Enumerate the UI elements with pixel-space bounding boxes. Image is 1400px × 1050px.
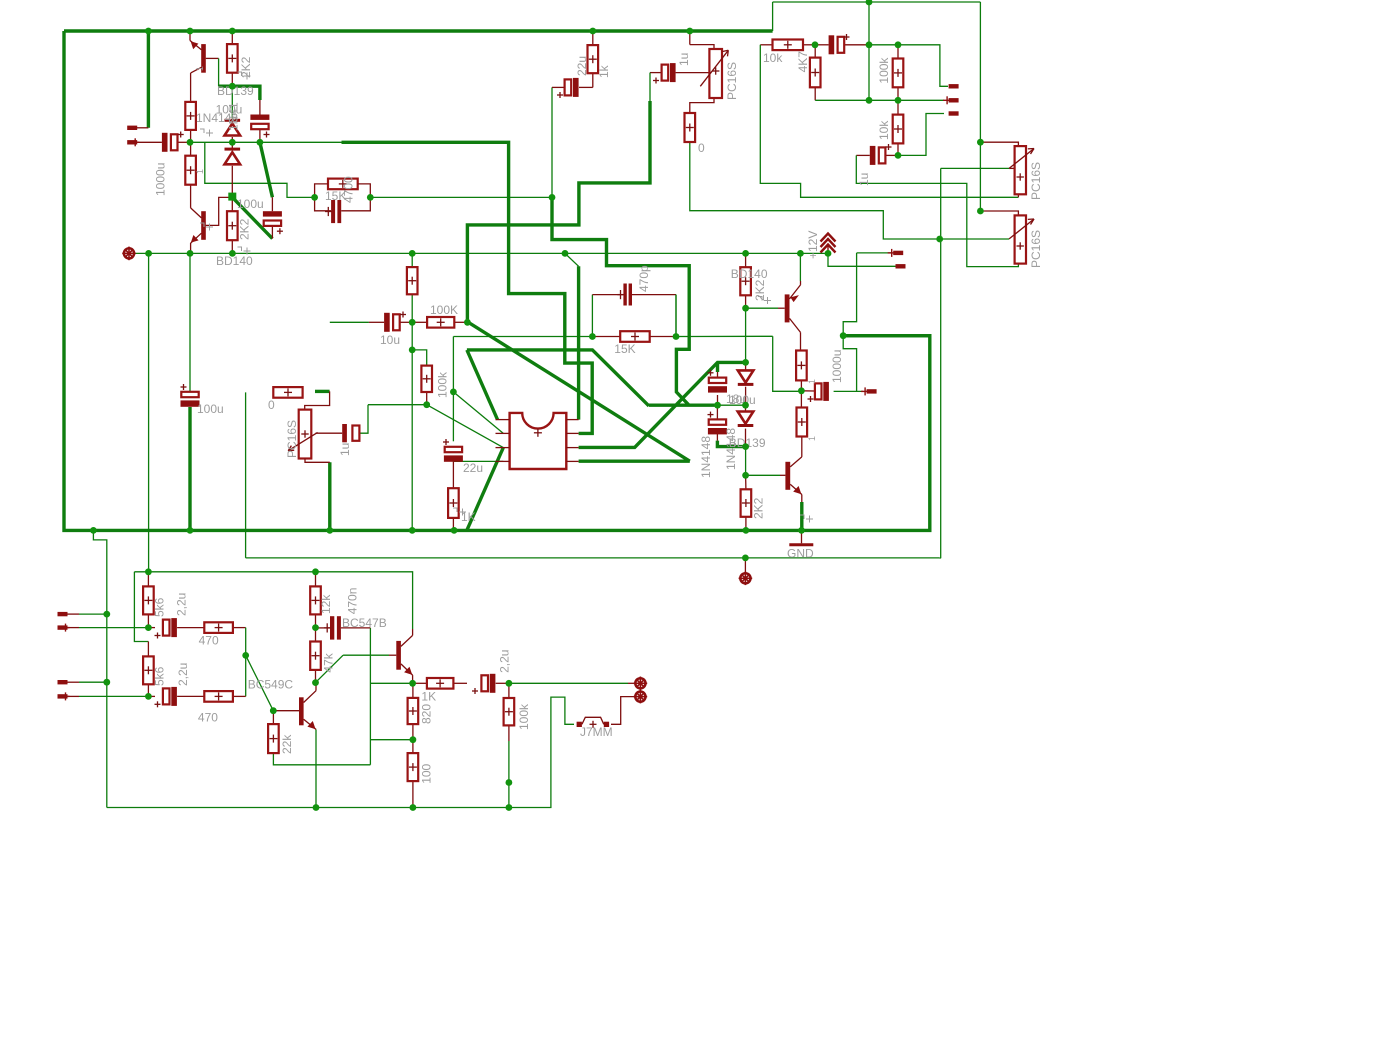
- wire wiper bus drop: [940, 168, 942, 558]
- wire y404 run: [368, 404, 427, 406]
- junction: [464, 319, 471, 326]
- svg-text:BD140: BD140: [731, 267, 768, 281]
- wire D2 to node lead: [231, 166, 233, 197]
- svg-text:PC16S: PC16S: [285, 420, 299, 458]
- junction: [229, 250, 236, 257]
- wire 15K R14 left lead: [592, 336, 620, 338]
- wire to pin D: [898, 45, 948, 87]
- wire to C17: [148, 627, 155, 629]
- wire C10 to R5: [579, 86, 593, 88]
- pin connector SP1-1: [127, 126, 137, 130]
- svg-text:100k: 100k: [517, 703, 531, 730]
- svg-text:2,2u: 2,2u: [175, 593, 189, 616]
- wire pot P3 wiper run: [941, 167, 1009, 169]
- junction: [866, 0, 873, 5]
- wire V- left/bottom rail loop: [64, 31, 930, 530]
- junction: [589, 333, 596, 340]
- wire 470p right vertical: [675, 295, 677, 337]
- wire 820 R25 bottom lead: [412, 724, 414, 740]
- svg-text:470: 470: [199, 634, 219, 648]
- wire 10k R10 bottom lead: [897, 143, 899, 155]
- wire 470p right drop: [675, 295, 677, 337]
- wire C11 right lead: [843, 44, 869, 46]
- wire R28 to pot P2: [305, 391, 330, 409]
- wire bus to X1: [744, 558, 746, 573]
- wire R1 to node: [190, 130, 192, 142]
- wire input bus y253: [136, 252, 829, 254]
- wire diag D2 node to C8 bottom: [233, 198, 273, 239]
- wire bootstrap diag to IC pin1 left: [467, 350, 498, 420]
- wire pot P1 top lead: [689, 31, 691, 45]
- wire C18 to 470 R20: [177, 695, 204, 697]
- wire 100k R11 right lead: [454, 321, 467, 323]
- capacitor C19 2,2u: [472, 674, 495, 694]
- wire to Q3 emitter: [799, 253, 801, 281]
- wire to C14 right: [360, 405, 368, 434]
- capacitor C20 18u: [708, 370, 728, 393]
- wire node to R 1b: [800, 391, 802, 408]
- wire x190 to C9: [189, 253, 191, 392]
- svg-text:15K: 15K: [614, 342, 635, 356]
- wire C4700 left hook: [315, 197, 332, 210]
- wire top thin run: [773, 1, 981, 3]
- wire 12k R22 bottom lead: [315, 614, 317, 627]
- wire 4K7 top lead: [814, 45, 816, 58]
- wire 22u C15 to 1K R13: [452, 460, 454, 488]
- wire D3 node down to C 18u: [716, 362, 719, 372]
- junction: [549, 194, 556, 201]
- wire C8 top lead: [271, 197, 273, 211]
- junction: [743, 527, 750, 534]
- wire to 820 R25: [412, 683, 414, 698]
- svg-text:1N4148: 1N4148: [699, 436, 713, 478]
- connector X1 output: [739, 572, 753, 586]
- wire to IC pin4 left: [453, 460, 503, 462]
- wire 10k R8 left lead: [760, 44, 772, 46]
- svg-text:1N4148: 1N4148: [724, 428, 738, 470]
- capacitor C12 1u: [870, 144, 892, 165]
- svg-text:1u: 1u: [338, 443, 352, 456]
- op-amp IC1 power amplifier: [510, 413, 567, 469]
- wire N1 horizontal to junction: [649, 404, 718, 407]
- junction: [798, 387, 805, 394]
- svg-text:100k: 100k: [436, 371, 450, 398]
- transistor Q3 BD140: [785, 285, 801, 333]
- capacitor C10 22u: [557, 78, 579, 98]
- pin connector IN1-1: [58, 612, 68, 616]
- wire R 1b to Q4: [801, 437, 803, 457]
- wire X3 to J7MM: [611, 697, 635, 725]
- junction: [450, 389, 457, 396]
- wire to 100k R12 top: [412, 350, 427, 366]
- connector X3 output: [634, 690, 648, 704]
- svg-text:J7MM: J7MM: [580, 725, 613, 739]
- wire IC pin3 right diag to D3 node: [579, 362, 746, 447]
- capacitor C5 1u: [653, 63, 676, 83]
- junction: [812, 41, 819, 48]
- wire 470n right lead: [341, 627, 371, 629]
- wire Q3 collector to R 1a: [800, 332, 802, 350]
- junction: [936, 236, 943, 243]
- wire D4 bottom lead: [745, 429, 747, 447]
- svg-text:4700: 4700: [342, 176, 356, 203]
- wire node to 2K2 R4: [231, 197, 233, 212]
- svg-text:10k: 10k: [877, 120, 891, 140]
- svg-text:100K: 100K: [430, 303, 458, 317]
- svg-text:1k: 1k: [597, 64, 611, 78]
- resistor R6 15K: [328, 179, 358, 190]
- wire to 15K R6 node: [205, 142, 315, 197]
- wire 10k to pot P3 bottom: [760, 45, 1018, 198]
- wire 5k6 R18 bottom lead: [147, 684, 149, 696]
- wire Q1 base lead: [206, 57, 219, 59]
- junction: [742, 305, 749, 312]
- wire C6 to node: [178, 141, 190, 143]
- wire input pin I1: [79, 613, 107, 615]
- junction: [145, 693, 152, 700]
- resistor R9 100k: [893, 59, 904, 88]
- wire input pin I4: [79, 695, 148, 697]
- capacitor C18 2,2u: [155, 687, 177, 707]
- wire diag to IC pin2 left: [453, 392, 503, 434]
- resistor R16 2K2: [741, 489, 752, 517]
- wire Q6 collector lead: [412, 629, 414, 635]
- wire emitter junction run: [370, 682, 412, 684]
- wire rail to GND: [801, 530, 803, 543]
- svg-text:5k6: 5k6: [153, 597, 167, 617]
- wire 10u to x412: [400, 321, 412, 323]
- wire Q5 base lead: [273, 710, 299, 712]
- svg-text:100k: 100k: [877, 57, 891, 84]
- transistor Q2 BD140: [191, 208, 206, 243]
- wire input pin I1 red: [68, 613, 80, 615]
- svg-text:2K2: 2K2: [238, 218, 252, 240]
- svg-text:0: 0: [268, 398, 275, 412]
- wire C8 bottom lead: [271, 227, 273, 239]
- wire to X2 connector: [509, 682, 628, 684]
- svg-text:100u: 100u: [197, 402, 224, 416]
- wire pin SV1-3 hook: [898, 114, 944, 156]
- wire Q4 emitter lead: [801, 495, 803, 503]
- resistor R1 1: [185, 102, 196, 130]
- wire Q6 emitter lead: [412, 675, 414, 683]
- wire C19 right lead: [496, 682, 509, 684]
- svg-text:5k6: 5k6: [153, 666, 167, 686]
- svg-text:1u: 1u: [857, 173, 871, 186]
- svg-text:1: 1: [195, 66, 205, 71]
- wire to pin A: [857, 252, 891, 254]
- junction: [506, 680, 513, 687]
- connector X2 output: [634, 677, 648, 691]
- capacitor C14 1u: [342, 424, 359, 442]
- resistor R3 2K2: [227, 44, 238, 73]
- wire pot P2 bottom hook: [305, 459, 330, 463]
- wire Q2 emitter to bus: [190, 243, 192, 253]
- junction: [187, 28, 194, 35]
- wire output node to right riser: [843, 334, 930, 337]
- capacitor C17 2,2u: [155, 618, 177, 638]
- junction: [506, 779, 513, 786]
- resistor R19 470: [204, 622, 233, 633]
- resistor R 1a: [796, 351, 807, 381]
- junction: [229, 83, 236, 90]
- wire C17 to 470 R19: [177, 627, 204, 629]
- transistor Q6 BC547B: [396, 635, 412, 675]
- wire 100k R12 bottom lead: [426, 392, 428, 405]
- wire corner fix: [940, 557, 941, 559]
- junction: [229, 139, 236, 146]
- wire 5k6 R17 bottom lead: [147, 614, 149, 627]
- wire to Q3 base: [746, 307, 778, 309]
- junction: [326, 527, 333, 534]
- wire to pot P4 wiper: [940, 238, 1009, 240]
- wire C12 right lead: [885, 154, 898, 156]
- junction: [312, 568, 319, 575]
- junction: [410, 736, 417, 743]
- wire 18u top lead: [717, 372, 719, 378]
- wire 47k R23 bottom lead: [315, 670, 317, 683]
- wire 1k R24 to C19: [453, 682, 467, 684]
- wire 5k6 R17 top lead: [147, 572, 149, 587]
- wire input pin I2 red: [68, 627, 80, 629]
- junction: [257, 139, 264, 146]
- svg-text:PC16S: PC16S: [725, 62, 739, 100]
- wire C7 top lead: [259, 100, 261, 115]
- wire x453 drop: [452, 337, 454, 442]
- wire 2K2 R3 bottom lead: [231, 73, 233, 84]
- wire node to 100 R26: [412, 740, 414, 753]
- junction: [742, 443, 749, 450]
- resistor R24 1k: [427, 678, 454, 689]
- wire to C18: [148, 695, 155, 697]
- wire pot P3 top lead: [980, 142, 1018, 146]
- wire to Q4 base: [746, 474, 780, 476]
- wire Q5 collector lead: [315, 683, 317, 691]
- wire input pin I2: [79, 627, 148, 629]
- wire x412 top: [411, 253, 413, 267]
- junction: [742, 402, 749, 409]
- wire x869 drop: [868, 2, 870, 100]
- wire IC pin4 right run: [579, 460, 690, 463]
- junction: [103, 611, 110, 618]
- junction: [423, 401, 430, 408]
- wire C5 to pot P1 wiper: [676, 72, 710, 74]
- wire 12k R22 top lead: [315, 572, 317, 587]
- resistor R22 12k: [310, 586, 321, 614]
- resistor R2 1: [185, 156, 196, 185]
- svg-text:22u: 22u: [463, 461, 483, 475]
- svg-text:820: 820: [420, 704, 434, 724]
- diode D1 1N4148: [225, 120, 241, 135]
- resistor R8 10k: [773, 40, 804, 51]
- wire 1k R5 bottom lead: [592, 73, 594, 87]
- wire input pin I3: [79, 681, 107, 683]
- capacitor C16 1000u: [808, 382, 829, 402]
- resistor R11 100k: [427, 317, 454, 328]
- wire 1K R13 to rail: [452, 518, 454, 531]
- resistor R7 0: [685, 113, 696, 142]
- pin connector SV1-3: [949, 111, 959, 115]
- wire node to 2K2 R16: [745, 475, 747, 489]
- svg-text:BC547B: BC547B: [342, 616, 387, 630]
- wire 2K2 R15 top lead: [745, 253, 747, 267]
- wire 100 R26 to rail: [412, 781, 414, 807]
- wire Q1 to R1: [190, 73, 192, 102]
- resistor R15 2K2: [740, 267, 751, 295]
- junction: [187, 139, 194, 146]
- svg-text:+12V: +12V: [806, 231, 820, 259]
- wire C5 to 100k node: [467, 101, 650, 322]
- svg-text:2,2u: 2,2u: [176, 663, 190, 686]
- transistor Q4 BD139: [785, 457, 801, 495]
- wire Q6 base run: [343, 654, 389, 656]
- wire C4700 right hook: [341, 197, 370, 210]
- wire pin2 to C6: [137, 141, 162, 143]
- wire node to D4: [745, 405, 747, 411]
- pin connector SV1-2: [943, 96, 959, 104]
- junction: [410, 804, 417, 811]
- junction: [742, 472, 749, 479]
- wire left input ground column: [93, 530, 106, 807]
- wire 2K2 R15 bottom lead: [745, 295, 747, 308]
- wire Q4 emitter to rail: [800, 502, 803, 530]
- capacitor C6 1000u: [162, 132, 184, 152]
- wire y336 right part: [689, 335, 773, 337]
- junction: [895, 41, 902, 48]
- svg-text:47k: 47k: [321, 652, 335, 672]
- junction: [506, 804, 513, 811]
- capacitor C21 15u: [708, 412, 727, 435]
- junction: [409, 319, 416, 326]
- junction: [145, 250, 152, 257]
- wire X2 stub: [628, 682, 635, 684]
- wire 10u lead: [369, 321, 384, 323]
- svg-text:1000u: 1000u: [154, 163, 168, 196]
- wire 470 R20 right lead: [233, 695, 246, 697]
- diode D2 1N4148: [225, 149, 241, 164]
- resistor R27 100k: [504, 698, 515, 725]
- svg-text:100: 100: [420, 763, 434, 783]
- junction: [866, 97, 873, 104]
- svg-text:470n: 470n: [345, 588, 359, 615]
- svg-text:PC16S: PC16S: [1029, 162, 1043, 200]
- diode D3 1N4148: [738, 370, 754, 384]
- resistor R4 2K2: [227, 211, 238, 240]
- wire 15K R14 right lead: [650, 336, 676, 338]
- junction: [797, 250, 804, 257]
- wire 22k bottom run: [273, 753, 370, 765]
- wire D3 top lead: [745, 362, 747, 370]
- wire y336 run: [453, 336, 592, 338]
- wire pot P2 wiper to C14: [316, 432, 343, 434]
- resistor R10 10k: [893, 115, 904, 144]
- wire 100k R9 bottom lead: [897, 87, 899, 100]
- wire 100k R27 to rail: [508, 741, 510, 808]
- junction: [90, 527, 97, 534]
- wire 10k R10 top lead: [897, 100, 899, 114]
- wire 820-100 junction run: [370, 739, 413, 741]
- pin connector OUT-C: [861, 387, 877, 395]
- junction: [313, 804, 320, 811]
- wire supply to 5k6 R18: [134, 572, 148, 642]
- ground GND symbol: [789, 543, 813, 546]
- wire diag to x578: [565, 253, 579, 266]
- svg-text:10u: 10u: [380, 333, 400, 347]
- capacitor C11 1u: [829, 34, 850, 54]
- junction: [714, 402, 721, 409]
- jumper J7MM: [577, 717, 610, 728]
- wire preamp ground rail to J7MM: [107, 697, 574, 807]
- wire diode chain top: [231, 86, 233, 118]
- wire right drop x980: [979, 2, 981, 211]
- svg-text:0: 0: [698, 141, 705, 155]
- junction: [311, 194, 318, 201]
- wire bootstrap horizontal + diagonal: [467, 350, 649, 406]
- potentiometer P3 PC16S: [1009, 146, 1034, 194]
- junction: [409, 527, 416, 534]
- resistor R26 100: [408, 753, 419, 781]
- junction: [409, 680, 416, 687]
- junction: [187, 250, 194, 257]
- transistor Q5 BC549C: [299, 691, 316, 730]
- svg-text:12k: 12k: [319, 594, 333, 614]
- supply +12V symbol: [821, 234, 836, 254]
- wire signal bus y558: [246, 557, 940, 559]
- capacitor C13 10u: [384, 312, 406, 332]
- svg-text:470: 470: [198, 711, 218, 725]
- wire R 1a to node: [800, 380, 802, 390]
- wire 10u C13 left: [330, 321, 369, 323]
- junction: [312, 679, 319, 686]
- diode D4 1N4148: [738, 412, 754, 426]
- wire preamp supply y571: [134, 572, 412, 629]
- junction: [977, 139, 984, 146]
- wire +12V node to pin B: [828, 253, 896, 266]
- wire C5 left lead: [650, 72, 662, 74]
- resistor R13 1K: [448, 488, 459, 518]
- junction: [187, 527, 194, 534]
- wire Q3 base stub: [778, 307, 785, 309]
- wire 22u drop full: [551, 87, 553, 197]
- svg-text:22k: 22k: [280, 734, 294, 754]
- wire Q1 base node: [219, 86, 260, 100]
- junction: [270, 707, 277, 714]
- resistor R12 100k: [421, 366, 432, 392]
- wire 470 R19 right lead: [233, 627, 246, 629]
- wire 470p left drop: [591, 295, 593, 337]
- resistor R18 5k6: [143, 656, 154, 684]
- wire diag to Q5 base: [246, 655, 274, 710]
- wire pot P1 top hook: [690, 45, 714, 49]
- capacitor C4700 4700: [325, 200, 341, 223]
- wire C 15u bottom to diode node: [717, 441, 745, 447]
- junction: [977, 208, 984, 215]
- wire D4 node down: [745, 447, 747, 476]
- resistor R9b 4K7: [810, 58, 821, 88]
- junction: [242, 652, 249, 659]
- pin connector OUT-A: [888, 249, 904, 257]
- junction: [798, 527, 805, 534]
- junction: [686, 28, 693, 35]
- wire V+ top rail: [64, 29, 773, 32]
- svg-text:BC549C: BC549C: [248, 678, 294, 692]
- svg-text:2,2u: 2,2u: [498, 650, 512, 673]
- IC pin stubs: [496, 419, 510, 421]
- wire pot P3 bottom lead: [1017, 194, 1019, 197]
- svg-text:1: 1: [807, 379, 817, 384]
- resistor R14 15K: [620, 331, 650, 342]
- wire R 0 stub: [315, 390, 330, 393]
